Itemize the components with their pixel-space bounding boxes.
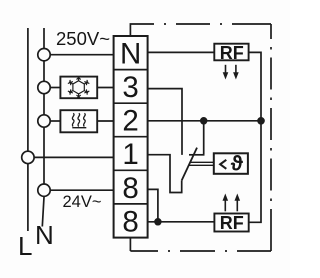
svg-text:N: N xyxy=(120,38,141,71)
svg-text:1: 1 xyxy=(122,138,138,171)
wire RF loop right side xyxy=(249,52,261,222)
switch contact bar xyxy=(189,154,205,156)
node junction t2/switch xyxy=(201,118,207,124)
terminal block dividers xyxy=(114,69,148,71)
wire heating to terminal 2 xyxy=(97,120,113,122)
device border right chain xyxy=(270,24,272,251)
wire terminal 1 to switch pivot xyxy=(148,155,182,193)
svg-text:3: 3 xyxy=(122,71,138,104)
svg-text:N: N xyxy=(35,220,54,250)
wire N box top stub xyxy=(130,24,154,36)
terminal circle N 250V xyxy=(38,49,50,61)
device border top chain xyxy=(154,23,271,25)
snowflake symbol xyxy=(68,76,89,98)
wire terminal 8a down xyxy=(148,189,158,221)
arrows RF top down xyxy=(226,65,236,73)
wire L to terminal 1 xyxy=(34,156,114,158)
cooling device box xyxy=(60,77,97,99)
switch linkage xyxy=(190,161,214,163)
heating device box xyxy=(60,110,97,132)
terminal circle heating xyxy=(38,115,50,127)
wire terminal 2 net xyxy=(148,120,261,122)
switch lever xyxy=(182,148,197,181)
svg-text:8: 8 xyxy=(122,172,138,205)
RF box bottom xyxy=(214,214,248,232)
device border bottom chain xyxy=(130,250,271,252)
wire terminal 3 to switch xyxy=(148,89,182,155)
svg-text:RF: RF xyxy=(220,43,244,63)
svg-text:24V~: 24V~ xyxy=(63,193,102,211)
svg-text:250V~: 250V~ xyxy=(56,28,110,49)
RF box top xyxy=(214,44,248,61)
thermostat box U1 xyxy=(214,153,248,174)
wire N bus vertical xyxy=(42,28,44,227)
node junction t2/RF xyxy=(258,118,264,124)
wire N to RF receiver xyxy=(148,51,215,53)
terminal circle L line xyxy=(22,151,34,163)
wire 24V to terminal 8 xyxy=(50,189,114,191)
svg-text:8: 8 xyxy=(122,205,138,238)
terminal circle 24V xyxy=(38,184,50,196)
terminal circle cooling xyxy=(38,81,50,93)
wire heating feed xyxy=(50,120,60,122)
arrows RF bottom up xyxy=(225,200,237,211)
node junction 8a/8b xyxy=(155,219,161,225)
thermostat less-than symbol xyxy=(220,160,226,169)
wire 8 box bottom stub xyxy=(129,238,131,251)
heating symbol xyxy=(72,113,86,127)
wire terminal 8b to RF xyxy=(148,221,215,223)
svg-text:2: 2 xyxy=(122,105,138,138)
wire cooling to terminal 3 xyxy=(97,87,113,89)
wire 250V feed xyxy=(50,54,114,56)
wire cooling feed xyxy=(50,87,60,89)
svg-text:RF: RF xyxy=(220,213,244,233)
svg-text:L: L xyxy=(18,231,32,261)
wire L bus vertical xyxy=(27,28,29,231)
wire switch contact from node xyxy=(203,121,205,154)
terminal block outline xyxy=(114,36,148,238)
svg-text:ϑ: ϑ xyxy=(231,153,244,176)
